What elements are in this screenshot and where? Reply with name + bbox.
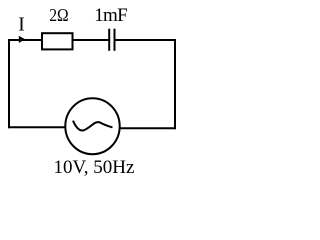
svg-text:1mF: 1mF bbox=[94, 5, 127, 26]
svg-text:10V, 50Hz: 10V, 50Hz bbox=[54, 157, 135, 178]
svg-text:2Ω: 2Ω bbox=[49, 5, 68, 25]
svg-text:I: I bbox=[18, 15, 25, 36]
